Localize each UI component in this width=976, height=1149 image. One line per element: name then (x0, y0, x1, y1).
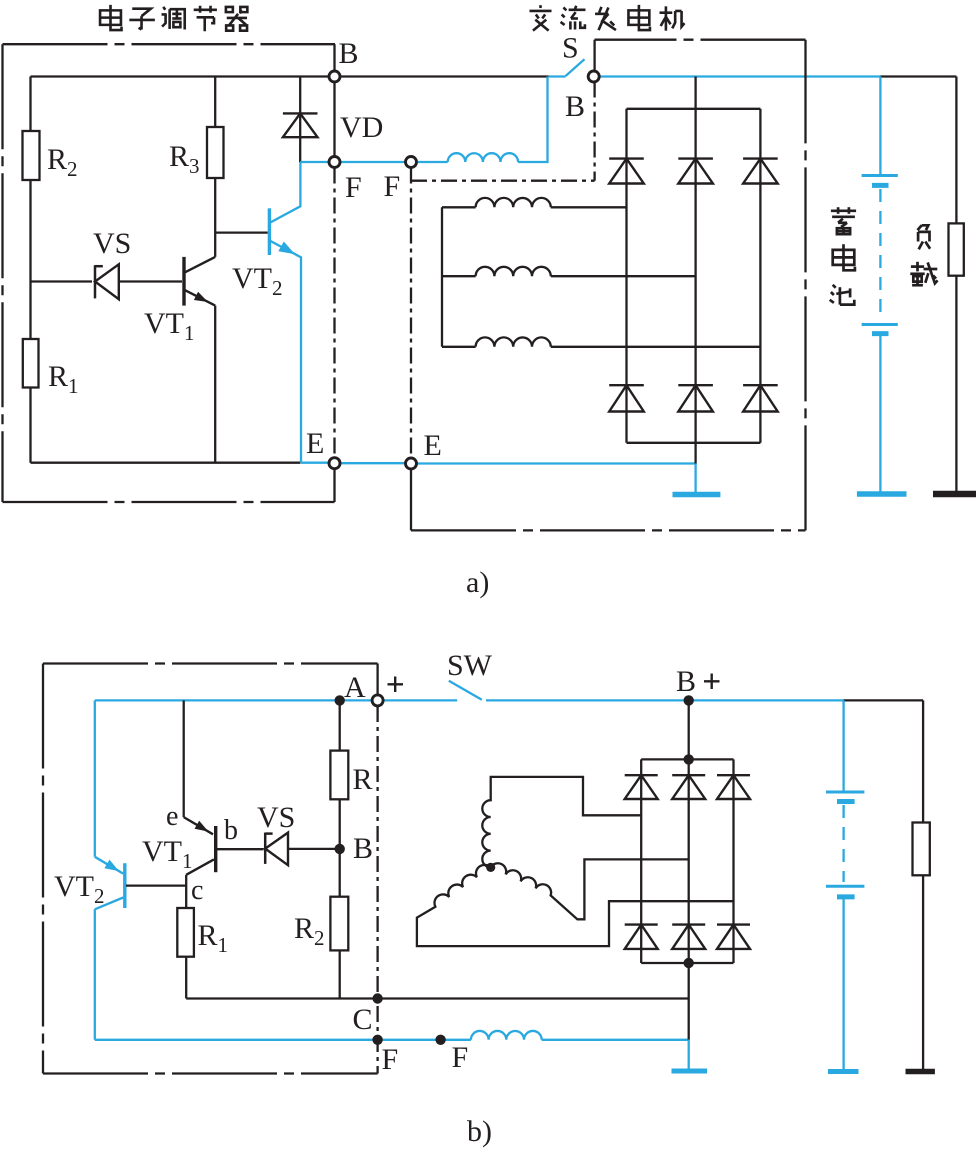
zener VS b cathode bar (264, 833, 267, 864)
node E2 (406, 458, 417, 469)
svg-text:F: F (382, 1043, 399, 1076)
diode top 3 (b) (717, 774, 750, 776)
wire B to F terminal (333, 81, 335, 157)
node F1 dot (372, 1035, 382, 1045)
rectifier b leg2 (688, 700, 690, 1039)
VT2 emitter arrow b (104, 860, 119, 871)
regulator b box right upper (376, 664, 378, 695)
svg-text:C: C (353, 1003, 373, 1036)
resistor R1 (23, 339, 39, 388)
rectifier b top rail (641, 758, 733, 760)
svg-text:B: B (339, 37, 359, 70)
load wire bottom (955, 276, 957, 491)
node B generator (588, 71, 599, 82)
VT2 collector to F wire (94, 909, 96, 1040)
wire to ground a (694, 464, 696, 493)
svg-text:S: S (562, 32, 579, 65)
battery b wire top (842, 700, 844, 792)
switch SW blade (449, 681, 482, 700)
diode bottom 1 (b) (625, 923, 658, 925)
regulator b box right (376, 706, 378, 1074)
regulator b box top (43, 662, 378, 664)
svg-text:SW: SW (447, 649, 493, 682)
wire A rail cyan (95, 699, 457, 701)
dash-dot F to E (333, 168, 335, 459)
wire top rail B (31, 75, 549, 77)
ground generator (673, 492, 721, 498)
generator box bottom (411, 529, 806, 531)
stator phase3 lead (442, 346, 476, 348)
field winding coil b (471, 1031, 542, 1040)
svg-text:B: B (676, 665, 696, 698)
transistor VT2 base bar (268, 208, 271, 255)
stator phase1 coil (476, 198, 551, 207)
rectifier b top dot (684, 754, 694, 764)
diode VD (283, 112, 318, 114)
wire R1 to C rail (185, 957, 187, 999)
stator phase3 coil (476, 337, 551, 346)
stator phase1 lead (442, 206, 476, 208)
generator box left upper (410, 168, 412, 459)
battery b wire bottom (842, 899, 844, 1069)
rectifier leg2 (694, 77, 696, 443)
diode top 2 (b) (672, 774, 705, 776)
zener VS b triangle (265, 833, 288, 866)
wire VT1 emitter branch (183, 700, 185, 817)
rectifier b bottom rail (641, 962, 733, 964)
wire divider branch (339, 700, 341, 998)
resistor R (330, 751, 348, 800)
VT2 collector lead b (95, 898, 123, 910)
regulator box right lower stub (333, 469, 335, 502)
stator bus (441, 207, 443, 346)
wire E to rectifier (417, 462, 696, 464)
svg-text:F: F (384, 170, 401, 203)
wire E between nodes (340, 462, 406, 464)
generator box notch upper (593, 40, 595, 72)
load b resistor (913, 823, 930, 876)
VT1 emitter arrow (194, 292, 208, 302)
stator phase3 to leg3 (551, 346, 761, 348)
svg-text:e: e (166, 801, 178, 832)
svg-text:c: c (191, 875, 203, 906)
regulator box top (3, 43, 336, 45)
plus sign B (704, 674, 720, 690)
node A dot (335, 695, 345, 705)
load b wire bottom (922, 875, 924, 1069)
wire to ground b (688, 1040, 690, 1069)
switch S blade (566, 59, 585, 76)
regulator box left (1, 44, 3, 502)
wire VT1 collector to R1 (185, 875, 187, 909)
transistor VT1 base bar b (214, 826, 217, 872)
wire VD branch (299, 77, 301, 163)
battery b dashed middle (842, 805, 844, 882)
ground battery (857, 491, 907, 497)
ground load (933, 491, 976, 498)
diode bottom 1 (a) (609, 384, 644, 386)
VT2 emitter lead b (95, 857, 123, 874)
battery b plate short 1 (837, 799, 855, 804)
VT1 collector lead (185, 257, 215, 272)
generator box right (804, 40, 806, 531)
svg-text:VD: VD (340, 111, 383, 144)
rectifier to E wire (694, 443, 696, 464)
wire B+ rail cyan (486, 699, 844, 701)
stator phase2 to leg2 (551, 275, 696, 277)
regulator box bottom (3, 501, 335, 503)
VT2 emitter lead (271, 241, 302, 463)
VT1 emitter arrow b (195, 821, 209, 832)
VT2 base lead (215, 231, 268, 233)
battery b plate long 1 (826, 791, 864, 794)
label 蓄电池 (831, 207, 856, 234)
wire E cyan left (301, 462, 329, 464)
transistor VT1 base bar (182, 257, 185, 306)
battery dashed middle (879, 189, 881, 321)
battery plate short 1 (872, 183, 889, 188)
svg-text:b): b) (467, 1115, 492, 1148)
VT2 emitter arrow (278, 242, 295, 255)
rectifier leg1 (625, 109, 627, 443)
wire coil to ground branch (542, 1039, 689, 1041)
diode top 1 (a) (609, 157, 644, 159)
generator box top (595, 39, 806, 41)
rectifier bottom rail (627, 442, 761, 444)
node C dot (372, 993, 382, 1003)
wire left branch (29, 77, 31, 463)
stator phase1 to leg1 (551, 206, 627, 208)
svg-text:F: F (345, 171, 362, 204)
battery plate long 1 (862, 174, 898, 177)
VT2 collector lead (271, 162, 301, 222)
wire VS to B node (288, 848, 340, 850)
battery plate short 2 (872, 331, 889, 336)
ground battery b (828, 1069, 859, 1074)
title 电子调节器 (100, 5, 121, 30)
generator box left lower (410, 469, 412, 530)
resistor R3 (207, 127, 224, 178)
stator neutral dot (486, 863, 495, 872)
svg-text:R: R (353, 763, 373, 796)
node E1 (329, 458, 340, 469)
svg-text:a): a) (466, 566, 489, 599)
svg-text:B: B (353, 832, 373, 865)
wire bottom rail (31, 462, 301, 464)
regulator b box left (42, 664, 44, 1074)
wire to VS (31, 280, 93, 282)
svg-text:E: E (306, 427, 324, 460)
zener VS triangle (95, 264, 119, 299)
stator phase3 b (491, 859, 689, 919)
diode top 2 (a) (678, 157, 713, 159)
ground load b (906, 1069, 935, 1075)
rectifier b bottom dot (684, 958, 694, 968)
svg-text:A: A (344, 671, 366, 704)
battery plate long 2 (862, 323, 898, 326)
wire F cyan (300, 161, 405, 163)
battery wire bottom (879, 336, 881, 492)
title 交流发电机 (529, 5, 551, 31)
rectifier b leg3 (732, 759, 734, 963)
diode bottom 3 (a) (743, 384, 778, 386)
wire to load (880, 75, 956, 77)
svg-text:F: F (452, 1041, 469, 1074)
VT2 emitter branch cyan (94, 700, 96, 856)
zener VS hook (95, 265, 103, 268)
diode bottom 2 (a) (678, 384, 713, 386)
stator phase2 coil (476, 267, 551, 276)
diode bottom 3 (b) (717, 923, 750, 925)
diode bottom 2 (b) (672, 923, 705, 925)
generator box notch vertical (593, 82, 595, 181)
svg-text:B: B (565, 90, 585, 123)
field winding coil (448, 153, 518, 162)
ground generator b (672, 1069, 708, 1074)
node B+ dot (684, 695, 694, 705)
wire B+ to load (844, 699, 924, 701)
node F2 dot (435, 1035, 445, 1045)
diode top 1 (b) (625, 774, 658, 776)
node B dot (335, 844, 345, 854)
VT2 base lead b (126, 884, 186, 886)
wire F rail cyan (95, 1039, 471, 1041)
regulator box right upper stub (333, 44, 335, 72)
zener VS b hook (265, 832, 272, 835)
svg-text:E: E (424, 429, 442, 462)
wire B+ cyan (600, 75, 881, 77)
node B (329, 71, 340, 82)
svg-text:VS: VS (93, 227, 131, 260)
rectifier top rail (627, 108, 761, 110)
terminal A circle (372, 695, 383, 706)
wire R3 branch (214, 77, 216, 257)
load resistor (949, 223, 964, 275)
wire F to coil (418, 161, 448, 163)
wire C rail (186, 997, 689, 999)
VT1 base lead b (217, 848, 264, 850)
zener VS cathode bar (94, 265, 97, 298)
wire VT1 emitter to rail (214, 306, 216, 463)
stator phase2 b (417, 865, 734, 946)
battery b plate short 2 (837, 894, 855, 899)
node F2 (406, 157, 417, 168)
VT1 collector lead b (186, 859, 214, 874)
wire stub to S (549, 75, 566, 77)
plus sign A (388, 677, 404, 693)
rectifier leg3 (759, 109, 761, 443)
resistor R2 b (330, 897, 348, 951)
resistor R2 (23, 131, 40, 180)
node F1 (329, 157, 340, 168)
rectifier b leg1 (640, 759, 642, 963)
stator phase2 lead (442, 275, 476, 277)
svg-text:VS: VS (257, 801, 295, 834)
battery wire top (879, 77, 881, 176)
battery b plate long 2 (826, 885, 864, 888)
VT1 emitter lead (185, 290, 215, 305)
stator phase1 b (482, 777, 641, 868)
transistor VT2 base bar b (123, 863, 126, 908)
label 负载 (918, 225, 931, 249)
resistor R1 b (177, 908, 194, 957)
VT1 emitter lead b (184, 817, 213, 834)
wire VS to VT1 base (120, 280, 182, 282)
diode top 3 (a) (743, 157, 778, 159)
regulator b box bottom (43, 1072, 378, 1074)
svg-text:b: b (224, 815, 238, 846)
wire coil to switch (518, 77, 547, 163)
generator box notch horizontal (411, 180, 595, 182)
load b wire top (922, 700, 924, 822)
load wire top (955, 77, 957, 224)
